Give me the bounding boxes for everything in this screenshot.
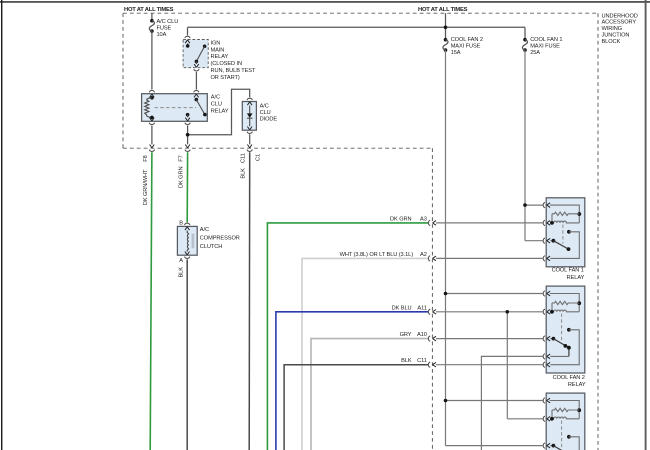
A/C CLU relay coil	[145, 96, 154, 119]
junction block name label	[602, 13, 638, 45]
svg-text:DK GRN: DK GRN	[179, 167, 185, 188]
relay 3 (partially shown)	[543, 393, 585, 450]
junction dot relay1 pin1	[523, 203, 527, 207]
svg-text:A2: A2	[420, 252, 427, 258]
A/C CLU relay top-right pin	[194, 90, 199, 97]
svg-text:JUNCTION: JUNCTION	[602, 33, 630, 39]
wire BLK C11	[284, 365, 428, 450]
wire diode to connector C11	[249, 134, 251, 144]
A/C CLU relay bottom-middle pin	[185, 118, 190, 125]
svg-text:A: A	[179, 258, 183, 264]
A/C CLU relay top-left pin	[149, 90, 154, 97]
svg-text:RELAY: RELAY	[568, 382, 586, 388]
connector A11	[428, 309, 436, 314]
svg-text:F8: F8	[143, 155, 149, 161]
connector C11/C1 at block border	[247, 145, 252, 152]
junction dot diode branch	[186, 133, 190, 137]
junction dot relay3 pin1	[444, 399, 448, 403]
diode A/C CLU DIODE	[242, 98, 256, 130]
svg-text:COOL FAN 1: COOL FAN 1	[530, 37, 562, 43]
svg-text:MAIN: MAIN	[211, 47, 225, 53]
fuse A/C CLU FUSE 10A	[149, 19, 154, 33]
wire relay2 NC pin down off page	[481, 356, 543, 450]
wire GRY A10	[311, 339, 428, 450]
svg-text:COMPRESSOR: COMPRESSOR	[200, 235, 240, 241]
wire from hot bus to A/C CLU fuse	[151, 13, 153, 20]
A/C CLU fuse label	[157, 19, 179, 38]
svg-text:RELAY: RELAY	[211, 54, 229, 60]
COOL FAN 2 fuse label	[451, 37, 483, 56]
svg-text:A/C: A/C	[200, 227, 209, 233]
svg-text:A/C CLU: A/C CLU	[157, 19, 179, 25]
A/C CLU relay bottom-left pin	[149, 118, 154, 125]
relay COOL FAN 1 RELAY	[543, 198, 585, 267]
svg-text:CLU: CLU	[211, 102, 222, 108]
svg-text:DK BLU: DK BLU	[392, 305, 412, 311]
fuse COOL FAN 1 MAXI FUSE 25A	[522, 38, 527, 52]
wire BLK from diode C11 down	[248, 152, 251, 450]
svg-text:15A: 15A	[451, 50, 461, 56]
svg-text:BLK: BLK	[241, 168, 247, 179]
wire hot bus feed to IGN relay and maxi fuses	[188, 13, 526, 39]
svg-text:BLK: BLK	[179, 267, 185, 278]
svg-text:GRY: GRY	[400, 332, 412, 338]
svg-text:COOL FAN 2: COOL FAN 2	[553, 375, 585, 381]
A/C CLU diode bottom pin	[247, 127, 252, 134]
svg-text:RUN, BULB TEST: RUN, BULB TEST	[211, 68, 256, 74]
svg-text:A11: A11	[417, 305, 426, 311]
wire DK GRN A3	[267, 223, 428, 450]
wire DK GRN from F7 to compressor clutch	[186, 152, 188, 222]
svg-text:C1: C1	[256, 154, 262, 161]
A/C CLU relay switch	[186, 98, 207, 118]
svg-text:CLUTCH: CLUTCH	[200, 244, 222, 250]
IGN main relay label	[211, 40, 256, 81]
svg-text:A3: A3	[420, 216, 427, 222]
svg-text:RELAY: RELAY	[567, 275, 585, 281]
wire A/C CLU relay switch to connector F7 and diode branch	[188, 89, 250, 144]
A/C CLU relay label	[211, 95, 229, 115]
svg-text:HOT AT ALL TIMES: HOT AT ALL TIMES	[418, 7, 468, 13]
solenoid A/C COMPRESSOR CLUTCH	[177, 223, 197, 255]
svg-text:WIRING: WIRING	[602, 26, 623, 32]
svg-text:25A: 25A	[530, 50, 540, 56]
wire DK GRN/WHT from F8 down	[150, 152, 152, 450]
junction dot relay2 pin1	[444, 292, 448, 296]
svg-text:HOT AT ALL TIMES: HOT AT ALL TIMES	[124, 7, 174, 13]
connector A2	[428, 256, 436, 261]
label DK BLU A11	[392, 305, 427, 311]
wire C11 to relay2 NO pin	[436, 364, 543, 366]
svg-text:BLK: BLK	[401, 358, 412, 364]
relay COOL FAN 2 RELAY	[543, 286, 585, 373]
A/C compressor clutch bottom pin A	[185, 252, 190, 259]
IGN main relay bottom pin	[194, 64, 199, 71]
A/C compressor clutch label	[200, 227, 240, 250]
svg-text:COOL FAN 2: COOL FAN 2	[451, 37, 483, 43]
underhood accessory wiring junction block dashed outline	[123, 13, 598, 450]
svg-text:A/C: A/C	[260, 104, 269, 110]
wire fuse to A/C CLU relay coil pin	[151, 31, 153, 90]
svg-text:CLU: CLU	[260, 110, 271, 116]
connector A3	[428, 220, 436, 225]
connector F7 at block border	[185, 145, 190, 152]
wire BLK from clutch pin A down	[186, 259, 188, 450]
junction dot hot feed	[444, 26, 448, 30]
COOL FAN 2 relay label	[553, 375, 586, 388]
A/C CLU relay actuation dashed link	[155, 107, 197, 109]
label GRY A10	[400, 332, 427, 338]
svg-text:C11: C11	[417, 358, 427, 364]
svg-text:OR START): OR START)	[211, 75, 240, 81]
svg-text:10A: 10A	[157, 32, 167, 38]
wire A10 to relay2 switch pin	[436, 338, 543, 340]
svg-text:COOL FAN 1: COOL FAN 1	[552, 268, 584, 274]
wire A2 to relay1 switch pin	[436, 257, 543, 259]
connector C11 (right row)	[428, 362, 436, 367]
svg-text:MAXI FUSE: MAXI FUSE	[451, 44, 481, 50]
wire A/C CLU relay coil to connector F8	[151, 125, 153, 144]
A/C CLU diode label	[260, 104, 278, 123]
fuse COOL FAN 2 MAXI FUSE 15A	[443, 38, 448, 52]
relay IGN MAIN RELAY	[183, 36, 208, 67]
COOL FAN 1 relay label	[552, 268, 585, 281]
wire COOL FAN 1 fuse to relay 1	[525, 50, 543, 241]
svg-text:DIODE: DIODE	[260, 116, 278, 122]
svg-text:B: B	[179, 221, 183, 227]
svg-text:BLOCK: BLOCK	[602, 39, 621, 45]
wire A11 to relay2 coil pin and relay3 branch	[436, 312, 543, 419]
wire COOL FAN 2 fuse down to relay 3	[446, 50, 543, 446]
wire IGN relay to A/C CLU relay switch pin	[195, 72, 197, 90]
wire WHT (3.8L) OR LT BLU (3.1L) A2	[302, 258, 428, 450]
junction dot DK BLU branch	[506, 310, 510, 314]
label DK GRN A3	[390, 216, 427, 222]
label BLK C11	[401, 358, 427, 364]
relay A/C CLU RELAY box	[142, 94, 208, 122]
connector F8 at block border	[149, 145, 154, 152]
svg-text:F7: F7	[179, 155, 185, 161]
connector A10	[428, 336, 436, 341]
wire DK BLU A11	[276, 312, 429, 450]
COOL FAN 1 fuse label	[530, 37, 562, 56]
svg-text:C11: C11	[241, 153, 247, 163]
svg-text:A/C: A/C	[211, 95, 220, 101]
svg-text:UNDERHOOD: UNDERHOOD	[602, 13, 638, 19]
svg-text:MAXI FUSE: MAXI FUSE	[530, 44, 560, 50]
svg-text:FUSE: FUSE	[157, 26, 172, 32]
svg-text:ACCESSORY: ACCESSORY	[602, 20, 637, 26]
wire A3 to relay1 coil pin	[436, 222, 543, 224]
svg-text:DK GRN/WHT: DK GRN/WHT	[143, 169, 149, 205]
label WHT A2	[340, 252, 427, 258]
svg-text:IGN: IGN	[211, 40, 221, 46]
svg-text:DK GRN: DK GRN	[390, 216, 411, 222]
svg-text:A10: A10	[417, 332, 427, 338]
svg-text:RELAY: RELAY	[211, 109, 229, 115]
svg-text:WHT (3.8L) OR LT BLU (3.1L): WHT (3.8L) OR LT BLU (3.1L)	[340, 252, 414, 258]
svg-text:(CLOSED IN: (CLOSED IN	[211, 61, 242, 67]
